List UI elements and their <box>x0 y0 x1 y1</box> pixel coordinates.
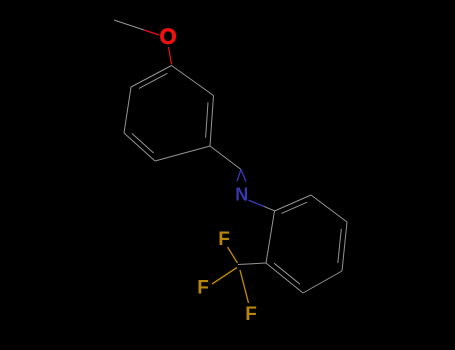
left ring bond C6-C1 <box>131 66 172 88</box>
right ring bond C2-C3 <box>266 263 303 293</box>
svg-text:F: F <box>218 229 230 250</box>
bond C-F2 (gold) <box>212 268 237 285</box>
svg-text:O: O <box>159 24 176 49</box>
right ring bond C4-C5 <box>342 222 347 271</box>
left ring bond C3-C4 <box>155 146 210 161</box>
bond C3(left ring)-CH imine carbon <box>210 146 241 170</box>
bond CH3-O (red half near O) <box>144 30 159 35</box>
svg-text:F: F <box>245 304 257 325</box>
bond O-C1 of left ring (red) <box>169 47 172 65</box>
bond N-C1 right ring (blue half) <box>249 200 264 206</box>
svg-text:F: F <box>197 278 209 299</box>
left ring inner double-bond line C6-C1 <box>139 73 167 88</box>
right ring inner double-bond line C6-C1 <box>282 202 308 213</box>
right ring inner double-bond line C2-C3 <box>274 263 300 284</box>
bond N-C1 right ring (gray half) <box>264 206 275 211</box>
imine C=N double bond stroke 2 (blue) <box>241 170 246 182</box>
right ring bond C3-C4 <box>303 271 342 293</box>
bond C-F3 (gold) <box>240 270 249 303</box>
bond CH3-O (gray half) <box>114 20 144 30</box>
bond C2(right ring)-CF3 carbon <box>238 263 266 265</box>
right ring inner double-bond line C4-C5 <box>338 229 342 263</box>
left ring bond C1-C2 <box>172 66 214 96</box>
bond C-F1 (gold) <box>228 247 238 263</box>
left ring inner double-bond line C4-C5 <box>132 133 154 153</box>
left ring inner double-bond line C2-C3 <box>206 102 208 137</box>
right ring bond C6-C1 <box>275 195 312 211</box>
right ring bond C5-C6 <box>311 195 347 222</box>
left ring bond C2-C3 <box>210 96 214 147</box>
right ring bond C1-C2 <box>266 211 275 263</box>
svg-text:N: N <box>235 185 248 205</box>
left ring bond C5-C6 <box>124 87 131 133</box>
imine C=N double bond stroke 1 (blue) <box>237 170 241 182</box>
left ring bond C4-C5 <box>124 133 155 161</box>
